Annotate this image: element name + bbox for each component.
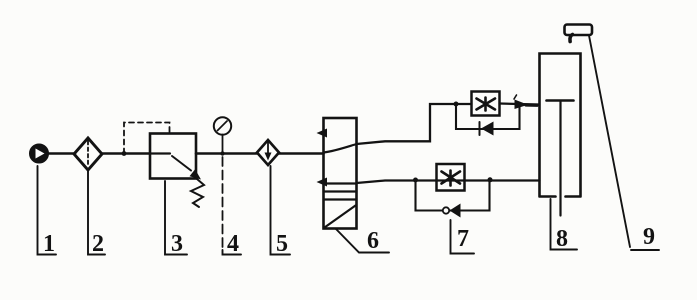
cylinder 8 (body) (540, 54, 581, 197)
filter 2 (diamond) (74, 138, 102, 170)
wire: lower bypass loop (416, 181, 490, 211)
valve 6 top-position flow path (324, 144, 357, 153)
label 7 leader (451, 220, 475, 254)
directional valve 6 (body) (324, 118, 357, 229)
svg-text:4: 4 (227, 231, 239, 257)
wire: valve to lower speed controller and cylinder (357, 181, 540, 184)
label 4 leader (222, 157, 224, 250)
lubricator 5 (diamond) (257, 140, 279, 165)
check valve (upper) (481, 122, 494, 136)
label 3 leader (165, 181, 187, 255)
pad head of lever 9 (565, 25, 593, 36)
throttle valve 7 (lower box) (437, 164, 465, 191)
check valve seat (upper) (479, 122, 481, 135)
svg-text:6: 6 (367, 228, 379, 254)
label 9 underline (631, 249, 659, 251)
valve 6 divider lines (324, 184, 357, 200)
wire: dashed pilot line to regulator top (124, 123, 170, 154)
label 2 leader (88, 171, 105, 255)
pressure gauge 4 (214, 117, 231, 153)
valve 6 left port arrow (lower) (317, 178, 328, 187)
wire: upper controller to cylinder (500, 104, 540, 105)
wire: regulator to lubricator (196, 152, 257, 155)
check valve ball (lower) (443, 207, 449, 213)
svg-text:9: 9 (643, 224, 655, 250)
valve 6 left port arrow (upper) (317, 129, 328, 138)
wire: lubricator to valve (279, 152, 324, 155)
svg-text:2: 2 (92, 231, 104, 257)
flow arrow to cylinder (515, 100, 529, 110)
label 6 leader (336, 229, 389, 253)
wire: valve to upper speed controller (357, 104, 472, 144)
svg-text:3: 3 (171, 231, 183, 257)
node: lower bypass branch (413, 178, 418, 183)
svg-text:1: 1 (43, 231, 55, 257)
wire: main supply line source to filter (47, 152, 75, 155)
valve 6 bottom-position flow path (325, 206, 356, 228)
svg-text:5: 5 (276, 231, 288, 257)
air source 1 (30, 145, 48, 163)
throttle valve 7 (upper box) (472, 92, 500, 116)
node: pilot tap junction (122, 151, 127, 156)
node: gauge stem junction (220, 151, 224, 155)
check valve (lower) (450, 204, 461, 218)
spring of regulator 3 (191, 179, 204, 207)
wire: filter to regulator (102, 152, 150, 155)
wire: upper bypass loop (456, 104, 520, 129)
node: lower bypass rejoin (488, 177, 493, 182)
label 8 leader (551, 199, 578, 250)
regulator 3 (box) (150, 134, 201, 180)
node: upper bypass branch (454, 102, 459, 107)
lever 9 (589, 36, 630, 248)
label 1 leader (38, 166, 57, 255)
cylinder 8 piston rod (559, 101, 561, 216)
label 5 leader (271, 166, 291, 255)
cylinder 8 piston (547, 99, 574, 102)
svg-text:7: 7 (457, 226, 469, 252)
svg-text:8: 8 (556, 226, 568, 252)
